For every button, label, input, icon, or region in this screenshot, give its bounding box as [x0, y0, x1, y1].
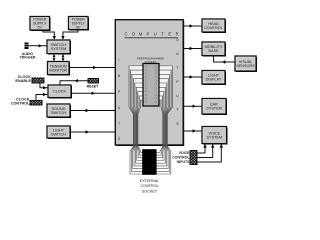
svg-text:T: T: [176, 66, 178, 70]
svg-text:BASE: BASE: [208, 49, 219, 53]
svg-text:SOCKET: SOCKET: [142, 189, 158, 193]
svg-text:5V: 5V: [38, 26, 43, 30]
svg-text:INPUTS: INPUTS: [177, 160, 191, 164]
svg-text:SYSTEM: SYSTEM: [206, 135, 222, 139]
svg-text:SWITCH: SWITCH: [51, 132, 66, 136]
svg-text:DISPLAY: DISPLAY: [206, 78, 222, 82]
svg-text:CONTROL: CONTROL: [140, 184, 158, 188]
svg-text:O: O: [132, 32, 135, 37]
svg-text:P: P: [147, 32, 150, 37]
svg-text:C: C: [125, 32, 128, 37]
svg-text:U: U: [154, 32, 157, 37]
svg-text:CLOCK: CLOCK: [53, 90, 67, 94]
svg-text:CONTROL: CONTROL: [204, 26, 223, 30]
svg-text:T: T: [176, 108, 178, 112]
svg-text:ENABLE: ENABLE: [15, 79, 31, 83]
svg-text:SWITCH: SWITCH: [51, 111, 66, 115]
svg-text:RESET: RESET: [87, 85, 100, 89]
svg-text:9V: 9V: [76, 25, 81, 29]
svg-text:I: I: [119, 58, 120, 62]
svg-text:EXTERNAL: EXTERNAL: [140, 179, 159, 183]
svg-text:TRIGGER: TRIGGER: [20, 56, 36, 60]
svg-text:MONITOR: MONITOR: [49, 68, 67, 72]
svg-text:CONTROL: CONTROL: [11, 101, 30, 105]
svg-text:T: T: [118, 122, 120, 126]
svg-text:SYSTEM: SYSTEM: [206, 107, 222, 111]
svg-text:E: E: [168, 32, 171, 37]
svg-text:SYSTEM: SYSTEM: [51, 47, 67, 51]
svg-text:VOICE: VOICE: [179, 151, 191, 155]
svg-text:M: M: [139, 32, 143, 37]
svg-text:O: O: [176, 38, 179, 42]
svg-text:SENSORS: SENSORS: [236, 64, 255, 68]
svg-text:CONTROL: CONTROL: [172, 155, 190, 159]
svg-text:R: R: [176, 32, 179, 37]
